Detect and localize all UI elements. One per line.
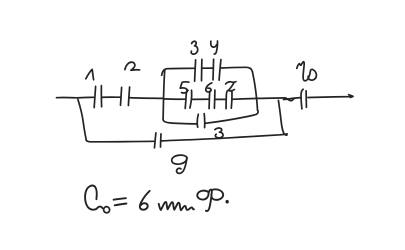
wire: outer bottom right segment xyxy=(162,134,288,141)
formula: letter C xyxy=(85,186,103,210)
capacitor C5 xyxy=(185,90,191,108)
wire: top branch right segment with corner xyxy=(221,67,252,72)
label 3 xyxy=(191,41,198,54)
wire: middle branch to node C and toward C10 xyxy=(232,98,284,99)
wire: overlapping stroke before C10 xyxy=(284,98,301,100)
capacitor C9 xyxy=(155,133,162,148)
formula: subscript o xyxy=(104,207,110,213)
label 2 xyxy=(125,62,140,70)
label 6 xyxy=(206,83,212,92)
wire C5-C6 xyxy=(192,98,209,100)
capacitor C6 xyxy=(209,90,215,109)
wire C2 to node B xyxy=(129,97,164,100)
capacitor C3 xyxy=(195,59,202,81)
wire: bottom branch left segment xyxy=(163,120,196,124)
wire: left input lead xyxy=(57,96,94,99)
label 4 xyxy=(211,41,218,54)
arrowhead xyxy=(349,95,353,98)
wire C1-C2 xyxy=(102,96,121,98)
label 7 xyxy=(226,82,236,91)
node B: box left vertical xyxy=(163,70,165,120)
formula: period xyxy=(226,201,228,203)
wire: bottom branch right segment rising to corner xyxy=(205,110,258,123)
wire C6-C7 xyxy=(215,98,225,100)
capacitor C8 xyxy=(197,114,204,128)
wire: middle branch segment 1 xyxy=(163,98,185,100)
wire: output lead xyxy=(308,96,353,97)
junction kink on wire before C10 xyxy=(286,98,295,101)
wire: outer loop right drop from main wire xyxy=(278,100,286,135)
label 8 xyxy=(215,128,223,138)
label 1 xyxy=(86,69,94,79)
capacitor C2 xyxy=(121,87,130,106)
formula: digit 6 xyxy=(140,191,150,210)
label 5 xyxy=(180,82,189,93)
formula: letter Phi xyxy=(197,189,223,211)
wire: outer bottom left segment xyxy=(86,140,154,142)
wire: junction descender from node A to bottom loop xyxy=(78,99,86,139)
capacitor C1 xyxy=(94,86,101,108)
label 9 xyxy=(172,155,187,173)
formula: letters mk xyxy=(159,202,194,210)
node C: box right vertical xyxy=(252,72,257,111)
formula: equals sign xyxy=(114,198,127,205)
capacitor C7 xyxy=(226,91,232,109)
capacitor C4 xyxy=(213,59,221,80)
capacitor C10 xyxy=(301,89,306,109)
wire: top branch left segment xyxy=(162,68,195,75)
wire C3-C4 xyxy=(202,67,212,69)
label 10 xyxy=(297,62,317,81)
